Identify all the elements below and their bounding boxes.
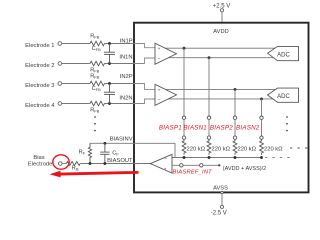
svg-text:RB: RB <box>72 166 79 172</box>
resistor RFB1 <box>90 41 104 46</box>
junction dot BIASN2 tap <box>260 97 263 100</box>
switch BIASP2 blade <box>234 119 236 135</box>
wire RFB4 to pin IN2N <box>105 103 135 105</box>
wire RFB3 to pin IN2P <box>105 83 135 85</box>
ellipsis more channels left <box>94 116 96 131</box>
electrode 1 terminal <box>58 42 62 46</box>
junction dot BIASP1 tap <box>183 47 186 50</box>
svg-text:220 kΩ: 220 kΩ <box>212 146 231 152</box>
bus line ch1 P <box>160 47 276 49</box>
node dot IN2N/CFB2 <box>108 102 111 105</box>
BIASREF switch contact 2 <box>200 164 203 167</box>
svg-text:IN2N: IN2N <box>119 95 132 101</box>
bus line ch1 N <box>160 57 274 59</box>
svg-text:Electrode 1: Electrode 1 <box>25 43 54 49</box>
BIASREF end dot <box>218 164 220 166</box>
wire IN2P jog to PGA2 <box>134 84 155 90</box>
svg-text:RFB: RFB <box>90 108 99 114</box>
switch BIASP1 top contact <box>182 116 185 119</box>
svg-text:IN1N: IN1N <box>119 54 132 60</box>
svg-text:BIASREF_INT: BIASREF_INT <box>173 170 213 176</box>
svg-text:IN2P: IN2P <box>120 74 133 80</box>
svg-text:220 kΩ: 220 kΩ <box>187 146 206 152</box>
svg-text:+: + <box>158 88 161 93</box>
wire RFB1 to pin IN1P <box>105 43 135 45</box>
svg-text:BIASINV: BIASINV <box>110 136 133 142</box>
svg-text:Electrode 4: Electrode 4 <box>25 103 55 109</box>
wire electrode1 to RFB1 <box>61 43 90 45</box>
switch column BIASN2 wire <box>261 99 263 116</box>
wire IN2N jog to PGA2 <box>134 99 155 104</box>
device box AVDD/AVSS outline <box>134 23 309 193</box>
svg-text:Electrode 2: Electrode 2 <box>25 63 54 69</box>
ADC2 block <box>268 88 299 102</box>
node dot CF top <box>103 142 106 145</box>
switch BIASN1 blade <box>208 119 210 135</box>
wire electrode to RB <box>62 163 67 165</box>
wire electrode4 to RFB4 <box>61 103 90 105</box>
switch column BIASN1 wire <box>208 58 210 116</box>
rail dashed continuation <box>265 157 290 159</box>
ADC1 block <box>268 46 299 60</box>
resistor 220k 1 <box>182 139 186 154</box>
svg-text:(AVDD + AVSS)/2: (AVDD + AVSS)/2 <box>223 166 266 172</box>
red bias drive arrow <box>50 171 139 178</box>
capacitor CFB2 <box>104 84 115 104</box>
wire electrode3 to RFB3 <box>61 83 90 85</box>
AVSS pin circle on box edge <box>221 191 223 193</box>
switch column BIASP2 wire <box>234 89 236 116</box>
svg-text:220 kΩ: 220 kΩ <box>264 146 283 152</box>
svg-text:220 kΩ: 220 kΩ <box>238 146 257 152</box>
svg-text:BIASN1: BIASN1 <box>183 124 207 131</box>
rail junction dot 2 <box>208 156 211 159</box>
node dot IN1P/CFB1 <box>108 42 111 45</box>
switch BIASP1 blade <box>183 119 185 135</box>
wire IN1P jog to PGA1 <box>134 44 155 48</box>
wire box bottom to -2.5V <box>221 193 223 205</box>
svg-text:−: − <box>158 98 161 104</box>
rail junction dot 1 <box>183 156 186 159</box>
switch BIASN2 blade <box>261 119 263 135</box>
switch BIASN2 top contact <box>260 116 263 119</box>
resistor RB <box>66 162 80 166</box>
svg-text:+: + <box>158 47 161 52</box>
svg-text:ADC: ADC <box>277 94 290 100</box>
svg-text:Electrode: Electrode <box>28 161 53 167</box>
resistor 220k 4 <box>260 139 264 154</box>
wire BIASINV <box>90 142 175 144</box>
wire BIASOUT pin to bias amp <box>134 163 151 165</box>
node dot CF bottom <box>103 162 106 165</box>
wire BIASINV down to rail <box>174 143 176 157</box>
resistor RFB2 <box>90 61 104 66</box>
svg-text:RF: RF <box>79 149 86 155</box>
wire electrode2 to RFB2 <box>61 63 90 65</box>
svg-text:IN1P: IN1P <box>120 39 133 45</box>
red highlight circle on bias electrode <box>53 155 69 169</box>
wire IN1N jog to PGA1 <box>134 58 155 64</box>
node dot RF bottom <box>89 162 92 165</box>
svg-text:−: − <box>158 57 161 63</box>
svg-text:BIASP2: BIASP2 <box>210 124 233 131</box>
electrode 3 terminal <box>58 82 62 86</box>
svg-text:BIASP1: BIASP1 <box>159 124 182 131</box>
svg-text:CFB: CFB <box>92 86 101 92</box>
switch BIASN1 bottom contact <box>207 136 210 139</box>
switch BIASP1 bottom contact <box>182 136 185 139</box>
svg-text:CFB: CFB <box>92 46 101 52</box>
svg-text:AVDD: AVDD <box>213 29 228 35</box>
wire bias amp + to BIASREF <box>172 164 219 166</box>
resistor 220k 2 <box>207 139 211 154</box>
node dot IN1N/CFB1 <box>108 62 111 65</box>
svg-text:RFB: RFB <box>90 74 99 80</box>
op-amp PGA2 <box>155 84 177 105</box>
resistor RFB4 <box>90 101 104 106</box>
switch BIASN2 bottom contact <box>260 136 263 139</box>
resistor RFB3 <box>90 81 104 86</box>
svg-text:−: − <box>164 156 167 162</box>
svg-text:AVSS: AVSS <box>213 186 228 192</box>
resistor RF <box>88 143 91 163</box>
-2.5V terminal circle <box>220 205 223 208</box>
wire RFB2 to pin IN1N <box>105 63 135 65</box>
junction dot BIASP2 tap <box>234 88 237 91</box>
wire RB to BIASOUT pin <box>81 163 135 165</box>
BIASREF switch contact 1 <box>180 164 183 167</box>
svg-text:-2.5 V: -2.5 V <box>211 210 227 216</box>
capacitor CF <box>100 143 109 163</box>
+2.5V terminal circle <box>220 9 223 12</box>
bias amplifier U3 <box>151 154 173 173</box>
capacitor CFB1 <box>104 44 115 64</box>
switch column BIASP1 wire <box>183 48 185 116</box>
ellipsis more channels right <box>286 116 288 131</box>
summing rail <box>172 157 262 159</box>
svg-text:CF: CF <box>112 151 119 157</box>
svg-text:Electrode 3: Electrode 3 <box>25 83 54 89</box>
bus line ch2 P <box>160 88 276 90</box>
svg-text:RFB: RFB <box>90 34 99 40</box>
svg-text:ADC: ADC <box>277 53 290 59</box>
op-amp PGA1 <box>155 43 177 64</box>
node dot IN2P/CFB2 <box>108 82 111 85</box>
continuation dashes after 220k labels <box>290 147 307 149</box>
electrode 4 terminal <box>58 102 62 106</box>
rail junction dot 4 <box>260 156 263 159</box>
resistor 220k 3 <box>233 139 237 154</box>
svg-text:BIASN2: BIASN2 <box>236 124 260 131</box>
bias electrode terminal <box>58 162 62 166</box>
svg-text:Bias: Bias <box>33 155 44 161</box>
switch BIASN1 top contact <box>207 116 210 119</box>
switch BIASP2 bottom contact <box>233 136 236 139</box>
svg-text:+: + <box>164 168 167 173</box>
electrode 2 terminal <box>58 62 62 66</box>
rail junction dot 3 <box>234 156 237 159</box>
switch BIASP2 top contact <box>233 116 236 119</box>
wire +2.5V to box top <box>221 12 223 22</box>
bus line ch2 N <box>160 98 274 100</box>
junction dot BIASN1 tap <box>208 56 211 59</box>
